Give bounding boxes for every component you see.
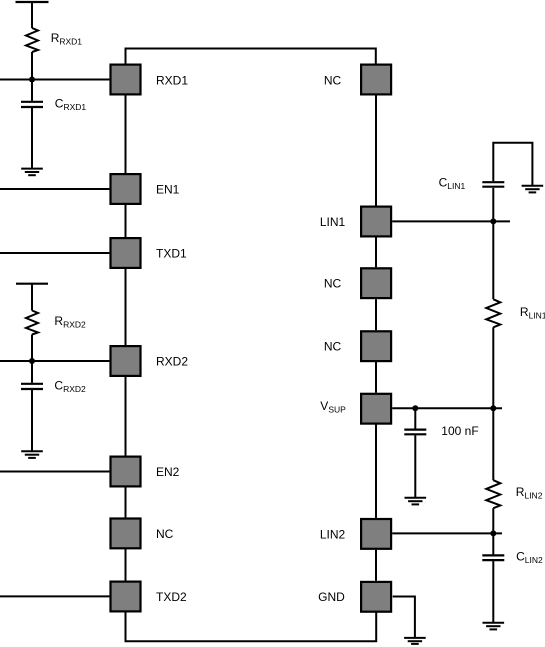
wire C_LIN2 to ground — [492, 561, 494, 622]
wire R_RXD2 to node — [31, 335, 33, 362]
pin RXD2 — [111, 346, 141, 376]
svg-text:RRXD2: RRXD2 — [54, 314, 86, 330]
wire EN2 to NC pin — [125, 487, 127, 517]
pin NC left — [111, 519, 141, 549]
wire R_LIN2 to LIN2 node — [492, 508, 494, 533]
wire R_RXD1 to node — [31, 52, 33, 80]
wire NC to LIN1 — [375, 96, 377, 206]
wire left edge to TXD1 — [0, 252, 109, 254]
svg-text:TXD2: TXD2 — [156, 590, 187, 604]
pin GND — [361, 582, 391, 612]
pin NC right top — [361, 65, 391, 95]
node junction VSUP bus — [490, 405, 496, 411]
supply terminal bar above R_RXD2 — [16, 283, 48, 285]
ground right of C_LIN1 — [522, 185, 544, 187]
pin NC right 3 — [361, 331, 391, 361]
wire RXD2 to EN2 — [125, 377, 127, 456]
wire node to C_LIN1 — [492, 188, 494, 222]
svg-text:100 nF: 100 nF — [441, 424, 478, 438]
capacitor C_LIN1 — [482, 186, 504, 188]
wire node to C_RXD2 — [31, 361, 33, 383]
wire LIN2 to GND — [375, 550, 377, 581]
pin NC right 2 — [361, 268, 391, 298]
wire left edge to RXD2 pin — [0, 360, 109, 362]
capacitor C_RXD1 — [21, 101, 43, 103]
ground below C_RXD2 — [21, 450, 43, 452]
capacitor C_RXD2 — [21, 383, 43, 385]
capacitor 100 nF — [404, 429, 426, 431]
wire LIN1 node to R_LIN1 — [492, 221, 494, 299]
node junction VSUP cap — [412, 405, 418, 411]
svg-text:VSUP: VSUP — [320, 399, 346, 415]
wire LIN1 to bus node — [392, 220, 510, 222]
svg-text:RLIN2: RLIN2 — [516, 485, 543, 501]
ground below GND pin — [404, 637, 426, 639]
svg-text:GND: GND — [318, 590, 345, 604]
pin LIN2 — [361, 519, 391, 549]
resistor R_LIN2 — [486, 480, 500, 508]
pin EN2 — [111, 457, 141, 487]
wire C_LIN1 top to ground corner — [493, 143, 532, 186]
ground below C_RXD1 — [21, 168, 43, 170]
wire LIN1 to NC — [375, 237, 377, 267]
wire NC to TXD2 — [125, 549, 127, 581]
svg-text:NC: NC — [324, 277, 342, 291]
wire node to C_LIN2 — [492, 533, 494, 554]
wire GND pin to ground — [393, 597, 415, 638]
wire RXD1 pin top to top rail — [126, 49, 376, 64]
svg-text:CLIN2: CLIN2 — [516, 550, 543, 566]
wire C_RXD1 to ground — [31, 108, 33, 168]
wire EN1 to TXD1 — [125, 205, 127, 237]
svg-text:EN1: EN1 — [156, 183, 180, 197]
svg-text:NC: NC — [156, 527, 174, 541]
svg-text:NC: NC — [324, 74, 342, 88]
pin VSUP — [361, 394, 391, 424]
svg-text:LIN1: LIN1 — [320, 215, 346, 229]
ground below C_LIN2 — [483, 622, 505, 624]
resistor R_RXD2 — [26, 311, 38, 335]
node junction LIN1 — [490, 218, 496, 224]
wire left edge to EN1 — [0, 188, 109, 190]
node junction LIN2 — [490, 530, 496, 536]
svg-text:RLIN1: RLIN1 — [520, 305, 545, 321]
wire bar to R_RXD1 — [31, 2, 33, 28]
svg-text:CLIN1: CLIN1 — [439, 176, 466, 192]
resistor R_LIN1 — [486, 299, 500, 327]
wire RXD1 to EN1 — [125, 96, 127, 174]
node junction RXD2 — [29, 358, 35, 364]
svg-text:EN2: EN2 — [156, 465, 180, 479]
wire R_LIN1 to VSUP node — [492, 327, 494, 408]
svg-text:RRXD1: RRXD1 — [51, 31, 83, 47]
svg-text:CRXD1: CRXD1 — [55, 96, 87, 112]
svg-text:NC: NC — [324, 340, 342, 354]
ground below 100nF — [405, 497, 427, 499]
pin TXD2 — [111, 582, 141, 612]
svg-text:RXD2: RXD2 — [156, 355, 188, 369]
pin TXD1 — [111, 238, 141, 268]
wire bar to R_RXD2 — [31, 284, 33, 311]
wire TXD1 to RXD2 — [125, 269, 127, 345]
svg-text:TXD1: TXD1 — [156, 247, 187, 261]
wire NC to NC — [375, 299, 377, 330]
node junction RXD1 — [29, 77, 35, 83]
wire LIN2 pin to bus — [392, 532, 502, 534]
wire C_RXD2 to ground — [31, 390, 33, 451]
supply terminal bar above R_RXD1 — [16, 1, 49, 3]
wire left edge to RXD1 pin — [0, 79, 109, 81]
wire VSUP pin to bus — [392, 407, 502, 409]
wire VSUP node to R_LIN2 — [492, 408, 494, 480]
pin EN1 — [111, 174, 141, 204]
wire node to C_RXD1 — [31, 80, 33, 101]
wire left edge to EN2 — [0, 471, 109, 473]
capacitor C_LIN2 — [482, 554, 504, 556]
wire VSUP to LIN2 — [375, 424, 377, 518]
wire 100nF to ground — [414, 435, 416, 497]
wire NC to VSUP — [375, 362, 377, 393]
pin LIN1 — [361, 207, 391, 237]
pin RXD1 — [111, 65, 141, 95]
svg-text:RXD1: RXD1 — [156, 74, 188, 88]
wire left edge to TXD2 — [0, 595, 109, 597]
resistor R_RXD1 — [26, 28, 38, 52]
wire TXD2 bottom to GND bottom — [126, 612, 377, 641]
svg-text:CRXD2: CRXD2 — [54, 379, 86, 395]
wire node to 100nF cap — [414, 408, 416, 428]
svg-text:LIN2: LIN2 — [320, 528, 346, 542]
